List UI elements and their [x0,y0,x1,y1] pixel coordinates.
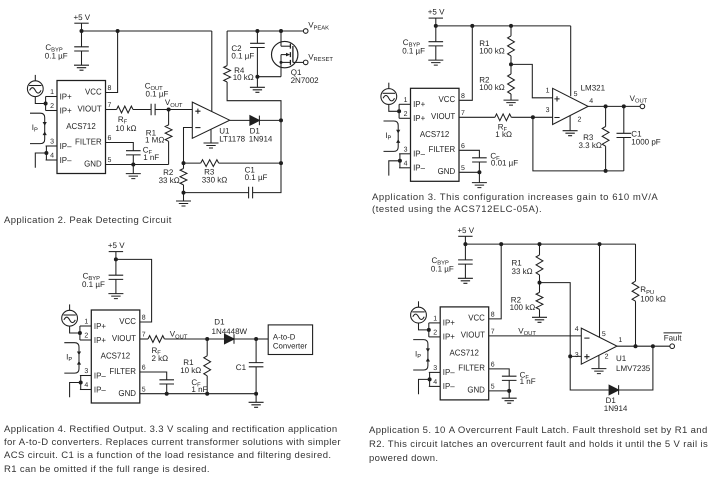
junction +5V stem (App2) [80,29,84,33]
label U1 LMV7235 (App5) [616,354,651,373]
svg-text:100 kΩ: 100 kΩ [510,303,536,312]
wire GND pin5 (App2) [106,164,169,166]
resistor R2 (App3) [508,64,515,100]
ground below comparator (App5) [591,355,606,373]
label Q1 2N7002 (App2) [291,68,320,85]
diode D1 (App5) [570,356,618,394]
label C1 (App4) [236,363,247,372]
svg-text:1: 1 [618,337,622,344]
junction divider node (App5) [538,281,542,285]
capacitor CF (App2) [106,143,141,165]
svg-text:ACS712: ACS712 [420,129,450,139]
pin 6 FILTER (App5) [458,361,494,372]
svg-text:GND: GND [467,385,485,395]
ground at CF (App2) [126,165,141,179]
wire op-amp output (App3) [588,105,640,107]
svg-text:FILTER: FILTER [75,136,102,146]
ground at C2 (App2) [250,77,265,93]
svg-text:7: 7 [491,328,495,335]
svg-text:10 kΩ: 10 kΩ [180,366,201,375]
capacitor C1 (App2) [249,187,253,199]
+5V supply symbol (App3) [428,8,445,26]
+5V supply symbol (App2) [73,13,90,31]
svg-text:1: 1 [546,87,550,94]
svg-text:LMV7235: LMV7235 [616,364,651,373]
pin 3 IP- (App4) [80,368,106,380]
label CF value (App5) [520,371,536,387]
pin 3 IP- (App5) [429,365,455,377]
pin 1 IP+ (App5) [429,316,455,328]
label CBYP value (App4) [82,271,105,289]
label D1 1N4448W (App4) [212,317,248,335]
svg-text:C1: C1 [236,363,247,372]
junction VCC riser on rail (App2) [116,29,120,33]
junction pins 3-4 (App3) [398,159,402,163]
wire VCC riser pin8 (App3) [459,26,472,100]
ground below CBYP (App3) [428,60,443,65]
pin 3 IP- (App3) [399,147,425,159]
pin 5 GND (App3) [438,165,465,176]
svg-text:8: 8 [108,85,112,92]
label RPU value (App5) [640,285,666,304]
caption Application 5 [369,424,717,466]
svg-text:8: 8 [142,315,146,322]
ground at C1 (App4) [249,394,264,408]
svg-text:1N914: 1N914 [249,135,273,144]
pin 2 IP+ (App3) [399,111,425,123]
diode D1 (App2) [250,116,260,126]
wire +5V rail (App2) [82,30,212,32]
svg-text:U1: U1 [616,354,627,363]
label R2 value (App2) [159,168,180,185]
svg-text:10 kΩ: 10 kΩ [233,73,254,82]
svg-text:8: 8 [461,93,465,100]
junction VCC riser on rail (App5) [499,242,503,246]
svg-text:VIOUT: VIOUT [78,103,103,113]
transistor Q1 2N7002 (App2) [272,31,304,77]
ground below CBYP (App2) [74,65,89,70]
wire shorting pins 1-2 (App3) [398,104,400,118]
pin 6 FILTER (App3) [429,143,465,154]
wire Q1 source to ground node (App2) [257,76,281,78]
label R3 value (App2) [202,168,228,185]
junction pins 3-4 (App2) [44,151,48,155]
svg-text:100 kΩ: 100 kΩ [479,83,505,92]
resistor R1 (App5) [536,244,543,283]
resistor RPU (App5) [632,244,639,346]
svg-text:4: 4 [433,379,437,386]
pin 1 IP+ (App2) [46,89,72,101]
svg-text:4: 4 [404,161,408,168]
pin 5 GND (App4) [118,387,145,398]
capacitor CF (App4) [140,372,174,394]
label IP (App2) [32,123,38,134]
svg-text:1N4448W: 1N4448W [212,327,248,336]
svg-text:10 kΩ: 10 kΩ [115,124,136,133]
label CBYP value (App3) [402,38,425,56]
wire shorting pins 1-2 (App5) [428,323,430,337]
label CBYP value (App2) [45,43,68,61]
pin 7 VIOUT (App2) [78,102,112,113]
label IP (App5) [415,349,421,360]
ground below R2 (App5) [532,317,547,322]
svg-text:0.1 µF: 0.1 µF [245,173,268,182]
svg-text:0.1 µF: 0.1 µF [402,46,425,55]
junction divider node (App3) [509,62,513,66]
wire shorting pins 3-4 (App5) [429,372,431,386]
svg-text:+5 V: +5 V [108,241,125,250]
comparator U1 LMV7235 (App5) [581,328,617,364]
label RF value (App4) [152,346,169,363]
ground below op-amp U1 (App2) [204,129,219,148]
label RF value (App3) [495,123,512,140]
pin 7 VIOUT (App5) [461,328,495,339]
svg-text:2: 2 [605,353,609,360]
svg-text:33 kΩ: 33 kΩ [512,267,533,276]
junction C2 ground node (App2) [255,75,259,79]
ground at CF (App5) [502,391,517,403]
svg-text:Converter: Converter [273,342,308,351]
junction inverting node (App2) [182,161,186,165]
svg-text:IP+: IP+ [94,335,106,345]
pin 2 IP+ (App4) [80,333,106,345]
svg-text:VCC: VCC [468,313,485,323]
wire shorting pins 3-4 (App3) [399,154,401,168]
junction feedback tap (App5) [651,344,655,348]
wire VCC riser pin8 (App2) [106,31,118,93]
junction pins 1-2 (App3) [397,109,401,113]
svg-text:1: 1 [84,319,88,326]
block A-to-D Converter (App4) [268,325,312,355]
svg-text:IP–: IP– [94,384,106,394]
label VOUT (App4) [170,330,188,341]
svg-text:33 kΩ: 33 kΩ [159,176,180,185]
wire shorting pins 3-4 (App4) [80,376,82,390]
svg-text:2: 2 [50,103,54,110]
svg-text:IP+: IP+ [443,318,455,328]
svg-text:0.1 µF: 0.1 µF [231,51,254,60]
label R1 value (App4) [180,358,201,375]
junction C1 top (App3) [622,104,626,108]
svg-text:100 kΩ: 100 kΩ [479,46,505,55]
junction bottom node (App2) [182,191,186,195]
resistor R2 (App2) [180,163,187,193]
svg-text:1 MΩ: 1 MΩ [145,135,164,144]
svg-text:ACS712: ACS712 [449,348,479,358]
capacitor CBYP (App2) [74,31,89,65]
svg-text:3: 3 [84,368,88,375]
junction C2 on VPEAK rail (App2) [255,29,259,33]
pin 2 IP+ (App5) [429,330,455,342]
junction CF-GND (App5) [507,389,511,393]
capacitor CBYP (App4) [109,259,124,293]
label R4 value (App2) [233,66,254,82]
ground at bottom node (App2) [176,193,191,206]
svg-text:3: 3 [50,139,54,146]
wire comparator output (App5) [617,345,670,347]
wire source to pins 1-2 (App3) [389,104,399,111]
wire divider to comparator + input (App5) [540,283,582,357]
caption Application 4 [4,423,349,476]
resistor RF (App4) [140,336,207,343]
junction +5V stem (App5) [463,242,467,246]
svg-text:FILTER: FILTER [429,144,456,154]
svg-text:IP–: IP– [60,155,72,165]
junction Q1 drain on VPEAK rail (App2) [279,29,283,33]
svg-text:6: 6 [491,361,495,368]
wire +5V rail (App3) [436,25,571,27]
op-amp U1 (App2) [192,102,229,138]
+5V supply symbol (App5) [457,226,474,244]
ACS712 sensor IC U-App3 body [411,88,460,181]
op-amp U1 LM321 (App3) [553,88,589,124]
svg-text:5: 5 [108,157,112,164]
svg-text:ACS712: ACS712 [101,351,131,361]
svg-text:4: 4 [50,153,54,160]
wire shorting pins 1-2 (App4) [79,326,81,340]
label IP (App4) [66,353,72,364]
junction R1 top (App4) [205,337,209,341]
pin 1 IP+ (App3) [399,97,425,109]
resistor R4 (App2) [224,31,281,120]
svg-text:6: 6 [461,143,465,150]
svg-text:7: 7 [461,110,465,117]
label pin numbers comparator (App5) [575,326,623,360]
pin 4 IP- (App5) [429,379,455,391]
wire GND pin5 (App3) [459,171,479,173]
label R2 value (App3) [479,75,505,92]
svg-text:IP–: IP– [413,149,425,159]
wire to A-to-D converter (App4) [256,338,268,340]
svg-text:2: 2 [84,333,88,340]
svg-text:5: 5 [461,165,465,172]
svg-text:1 nF: 1 nF [191,385,207,394]
svg-text:4: 4 [575,326,579,333]
capacitor COUT (App2) [151,104,169,116]
wire D1 cathode to output node (App2) [259,119,281,121]
wire return from pins 3-4 (App3) [389,161,400,176]
label CF value (App3) [490,152,518,168]
IP current loop arrows (App4) [64,343,81,373]
junction +5V stem (App3) [434,24,438,28]
wire VCC riser pin8 (App5) [489,244,502,319]
svg-text:2: 2 [404,111,408,118]
node VOUT (App2) [165,98,183,111]
label R1 value (App5) [512,259,533,277]
svg-text:1N914: 1N914 [604,404,628,413]
svg-text:FILTER: FILTER [109,366,136,376]
svg-text:IP+: IP+ [60,91,72,101]
junction pins 1-2 (App5) [427,328,431,332]
svg-text:+5 V: +5 V [73,13,90,22]
svg-text:3: 3 [575,352,579,359]
junction R1 on rail (App5) [538,242,542,246]
svg-text:100 kΩ: 100 kΩ [640,295,666,304]
svg-text:4: 4 [589,98,593,105]
wire shorting pins 3-4 (App2) [45,146,47,160]
svg-text:4: 4 [84,382,88,389]
svg-text:3: 3 [433,365,437,372]
capacitor CBYP (App3) [429,26,444,60]
pin 8 VCC (App2) [85,85,112,96]
ACS712 sensor IC U-App5 body [440,307,489,400]
label CBYP value (App5) [431,256,454,274]
junction CF bottom (App4) [165,392,169,396]
wire +5V rail (App5) [465,243,635,245]
svg-text:2 kΩ: 2 kΩ [152,354,169,363]
junction pins 1-2 (App2) [44,102,48,106]
svg-text:GND: GND [84,158,102,168]
label LM321 (App3) [581,83,606,92]
svg-text:Fault: Fault [664,333,683,342]
svg-text:GND: GND [118,388,136,398]
wire output node down (App2) [253,120,281,192]
resistor R2 (App5) [536,283,543,318]
svg-text:1: 1 [50,89,54,96]
svg-text:1 nF: 1 nF [143,153,159,162]
svg-text:8: 8 [491,311,495,318]
pin 4 IP- (App3) [399,161,425,173]
label C2 value (App2) [231,44,254,60]
pin 5 GND (App5) [467,383,494,394]
svg-text:IP–: IP– [443,367,455,377]
diode D1 (App4) [207,334,256,344]
svg-text:0.1 µF: 0.1 µF [45,52,68,61]
svg-text:1: 1 [433,316,437,323]
pin 4 IP- (App4) [80,382,106,394]
resistor R1 (App4) [204,339,211,394]
svg-text:IP–: IP– [60,141,72,151]
svg-text:VCC: VCC [438,94,455,104]
svg-text:VCC: VCC [85,86,102,96]
svg-text:1 nF: 1 nF [520,377,536,386]
wire VPEAK rail (App2) [227,30,303,32]
ACS712 sensor IC U-App4 body [91,310,140,403]
junction pins 1-2 (App4) [78,331,82,335]
resistor RF (App3) [459,114,553,121]
junction CF-GND (App2) [131,163,135,167]
svg-text:7: 7 [108,102,112,109]
terminal VOUT (App3) [630,94,648,109]
svg-text:5: 5 [574,91,578,98]
AC current source (App4) [62,304,78,326]
svg-text:6: 6 [108,135,112,142]
svg-text:3.3 kΩ: 3.3 kΩ [578,141,601,150]
terminal VRESET (App2) [303,52,333,64]
pin 8 VCC (App3) [438,93,465,104]
resistor R3 (App3) [602,106,609,170]
AC current source (App5) [411,301,427,323]
wire op-amp supply riser (App2) [211,31,213,112]
svg-text:330 kΩ: 330 kΩ [202,175,228,184]
svg-text:IP+: IP+ [94,321,106,331]
junction output node (App2) [279,118,283,122]
junction pins 3-4 (App5) [428,377,432,381]
pin 4 IP- (App2) [46,153,72,165]
label CF value (App2) [143,145,160,162]
label C1 value (App3) [631,130,660,147]
wire source to pins 1-2 (App5) [419,323,429,330]
wire divider to op-amp + input (App3) [511,64,553,97]
wire op-amp output (App2) [230,119,250,121]
pin 6 FILTER (App2) [75,135,111,146]
resistor R1 (App2) [165,110,172,165]
caption Application 2 [4,214,334,227]
capacitor C1 (App3) [617,106,632,170]
svg-text:2N7002: 2N7002 [291,76,320,85]
junction R1 on rail (App3) [509,24,513,28]
wire feedback (App3) [533,117,624,171]
ground at CF (App3) [472,172,487,187]
svg-text:5: 5 [491,383,495,390]
label D1 1N914 (App2) [249,127,273,144]
ACS712 sensor IC U-App2 body [57,81,106,174]
pin 8 VCC (App5) [468,311,495,322]
wire +5V rail (App4) [116,259,152,322]
wire source to pins 1-2 (App2) [35,97,45,104]
wire return from pins 3-4 (App5) [419,379,430,394]
capacitor CF (App3) [459,150,487,172]
wire VOUT pin7 to comparator - input (App5) [489,335,582,337]
pin 2 IP+ (App2) [46,103,72,115]
junction C1 bottom (App4) [254,392,258,396]
svg-text:+5 V: +5 V [428,8,445,17]
wire VOUT to op-amp + input (App2) [169,109,193,111]
svg-text:VIOUT: VIOUT [431,111,456,121]
junction + input node (App5) [568,354,572,358]
caption Application 3 [372,192,717,216]
svg-text:IP+: IP+ [413,113,425,123]
pin 7 VIOUT (App4) [112,332,146,343]
wire op-amp supply riser pin5 (App3) [570,26,572,96]
junction feedback R3 (App3) [604,169,608,173]
svg-text:GND: GND [438,166,456,176]
svg-text:VIOUT: VIOUT [461,330,486,340]
wire bottom node (App2) [184,192,249,194]
label D1 1N914 (App5) [604,396,628,413]
svg-text:IP–: IP– [94,370,106,380]
pin 1 IP+ (App4) [80,319,106,331]
wire comparator supply riser pin5 (App5) [599,244,601,337]
svg-text:5: 5 [602,331,606,338]
junction +5V stem (App4) [114,257,118,261]
svg-text:IP+: IP+ [443,332,455,342]
AC current source (App3) [381,83,397,105]
svg-text:3: 3 [404,147,408,154]
ground below CBYP (App5) [458,278,473,283]
wire GND pin5 (App5) [489,390,510,392]
svg-text:1000 pF: 1000 pF [631,137,660,146]
ground below R2 (App3) [504,100,519,105]
pin 8 VCC (App4) [119,315,146,326]
svg-text:3: 3 [546,107,550,114]
wire shorting pins 1-2 (App2) [45,97,47,111]
svg-text:VIOUT: VIOUT [112,333,137,343]
svg-text:1 kΩ: 1 kΩ [495,130,512,139]
svg-text:IP–: IP– [443,381,455,391]
junction R3 top (App3) [604,104,608,108]
label pin numbers op-amp (App3) [546,87,594,123]
label R2 value (App5) [510,296,536,313]
svg-text:LM321: LM321 [581,83,606,92]
pin 3 IP- (App2) [46,139,72,151]
pin 5 GND (App2) [84,157,111,168]
label R1 value (App2) [145,129,164,145]
junction supply riser on rail (App5) [598,242,602,246]
resistor R3 (App2) [184,160,282,167]
svg-text:IP+: IP+ [60,105,72,115]
svg-text:0.1 µF: 0.1 µF [431,265,454,274]
